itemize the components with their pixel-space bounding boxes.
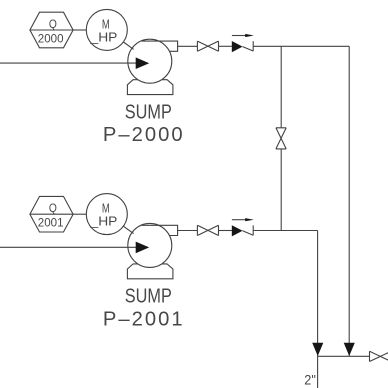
check valve on P-2001 discharge bbox=[232, 225, 253, 236]
svg-text:2001: 2001 bbox=[38, 216, 64, 230]
wire: P-2001 discharge to middle riser corner bbox=[253, 230, 317, 232]
pump P-2001 pedestal base bbox=[127, 264, 172, 279]
flow direction arrow above check valve bbox=[232, 218, 254, 221]
pump P-2000 casing circle bbox=[128, 39, 172, 83]
svg-text:M: M bbox=[102, 202, 110, 216]
pump P-2001 casing circle bbox=[128, 223, 172, 267]
flow direction arrow above check valve bbox=[232, 34, 254, 37]
svg-text:2": 2" bbox=[304, 371, 316, 387]
tag text Q 2001 bbox=[38, 201, 64, 230]
motor text M _HP bbox=[89, 202, 117, 229]
svg-text:Q: Q bbox=[49, 17, 57, 31]
inline valve (vertical gate valve) on branch bbox=[276, 128, 286, 149]
discharge line segment volute to gate valve bbox=[178, 230, 198, 232]
svg-text:Q: Q bbox=[49, 201, 57, 215]
wire: motor to pump connector bbox=[123, 226, 133, 233]
pump P-2001 impeller flow triangle bbox=[136, 242, 150, 254]
tag text Q 2000 bbox=[38, 17, 64, 46]
motor text M _HP bbox=[89, 18, 117, 45]
svg-text:SUMP: SUMP bbox=[125, 101, 172, 123]
outlet gate valve (clipped at right edge) bbox=[370, 351, 388, 361]
suction line (wire) pump P-2001 bbox=[0, 246, 141, 248]
wire: vertical branch drop (lower) joining P-2001 discharge bbox=[280, 149, 282, 231]
label SUMP P-2001 bbox=[103, 286, 183, 331]
svg-text:2000: 2000 bbox=[38, 31, 64, 45]
svg-text:_HP: _HP bbox=[89, 215, 117, 229]
wire: middle riser down to header bbox=[317, 231, 319, 388]
label SUMP P-2000 bbox=[103, 101, 183, 146]
header line to outlet valve bbox=[318, 355, 370, 357]
wire: hexagon to motor connector bbox=[73, 213, 86, 215]
pump P-2000 impeller flow triangle bbox=[136, 57, 150, 69]
suction line (wire) pump P-2000 bbox=[0, 62, 141, 64]
motor circle M (_HP) for P-2000 bbox=[86, 9, 127, 50]
gate valve on P-2000 discharge bbox=[197, 41, 218, 51]
wire: P-2000 discharge to right riser bbox=[253, 45, 349, 47]
flow arrow into header (middle riser) bbox=[312, 343, 323, 356]
svg-text:SUMP: SUMP bbox=[125, 286, 172, 308]
wire: gate valve to check valve bbox=[219, 45, 232, 47]
instrument tag hexagon Q-2000 bbox=[30, 12, 73, 48]
svg-text:P–2000: P–2000 bbox=[103, 124, 183, 146]
pump P-2000 volute discharge nozzle bbox=[142, 41, 178, 51]
svg-text:M: M bbox=[102, 18, 110, 32]
pump P-2000 pedestal base bbox=[127, 80, 172, 95]
svg-text:_HP: _HP bbox=[89, 31, 117, 45]
discharge line segment volute to gate valve bbox=[178, 45, 198, 47]
svg-text:P–2001: P–2001 bbox=[103, 308, 183, 330]
wire: motor to pump connector bbox=[123, 42, 133, 49]
gate valve on P-2001 discharge bbox=[197, 225, 218, 235]
wire: vertical branch drop from P-2000 discharge (upper) bbox=[280, 46, 282, 128]
wire: gate valve to check valve bbox=[219, 230, 232, 232]
wire: right riser down to header bbox=[348, 46, 350, 356]
wire: hexagon to motor connector bbox=[73, 29, 86, 31]
instrument tag hexagon Q-2001 bbox=[30, 196, 73, 232]
check valve on P-2000 discharge bbox=[232, 41, 253, 52]
motor circle M (_HP) for P-2001 bbox=[86, 194, 127, 235]
pump P-2001 volute discharge nozzle bbox=[142, 225, 178, 235]
flow arrow into header (right riser) bbox=[344, 343, 355, 356]
